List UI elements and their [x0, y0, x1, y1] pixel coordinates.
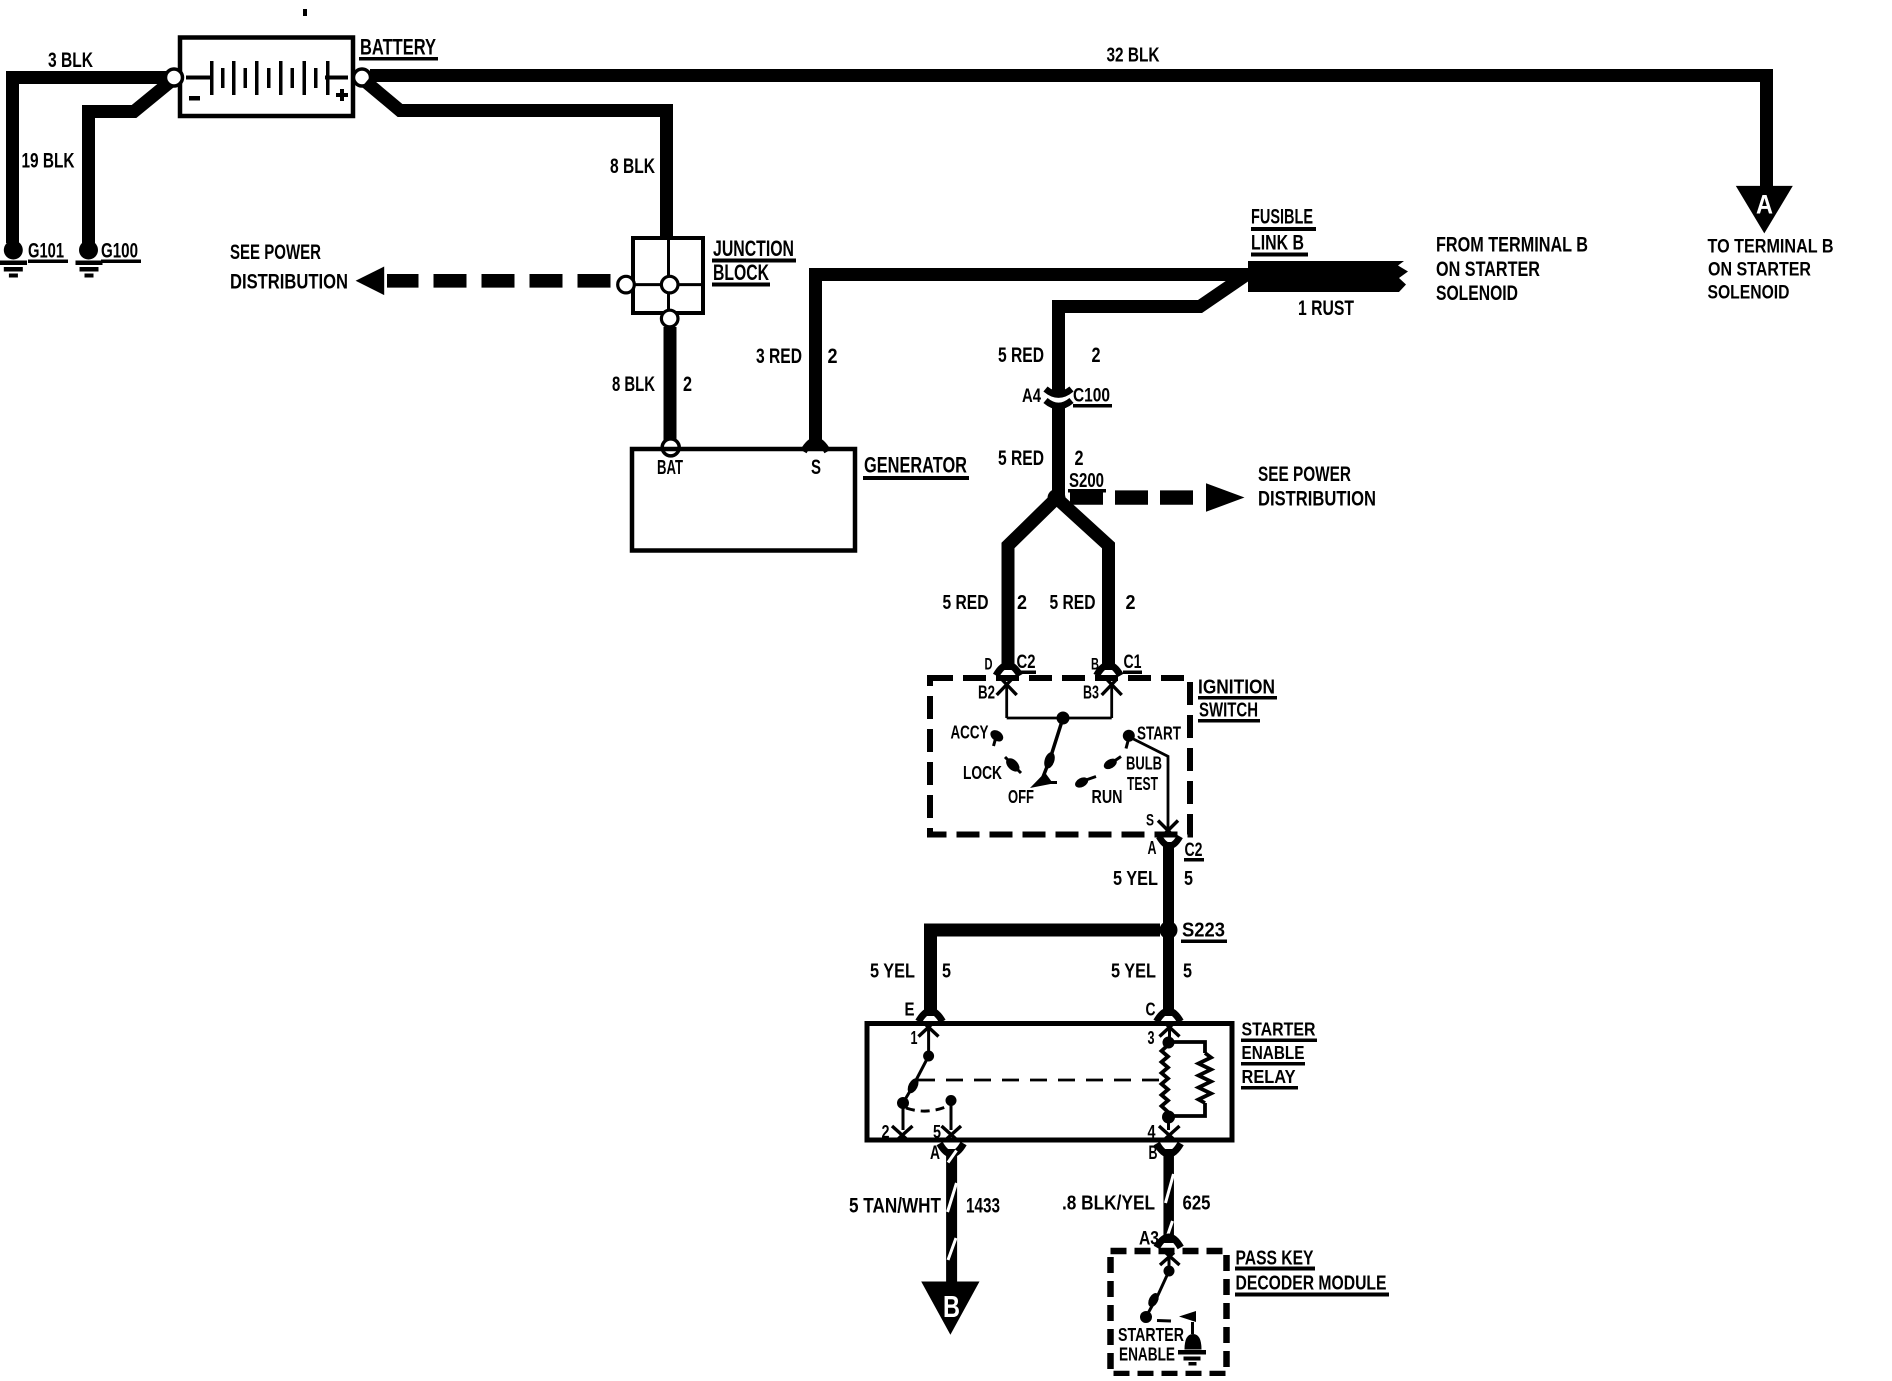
svg-text:OFF: OFF	[1008, 787, 1034, 807]
contact to pin 2	[902, 1103, 905, 1130]
svg-text:B3: B3	[1083, 683, 1099, 703]
label G100	[101, 240, 141, 264]
battery	[180, 38, 353, 117]
pin 3 arrow	[1160, 1023, 1180, 1040]
label STARTER ENABLE (in module)	[1118, 1325, 1184, 1365]
wire 5 YEL 5 ignition switch to S223	[1163, 842, 1174, 1016]
svg-text:3 BLK: 3 BLK	[48, 49, 93, 72]
svg-text:TEST: TEST	[1127, 774, 1158, 794]
svg-text:RELAY: RELAY	[1242, 1067, 1296, 1087]
terminal label C2	[1016, 652, 1036, 674]
svg-text:C: C	[1146, 1000, 1156, 1020]
svg-text:LOCK: LOCK	[963, 763, 1002, 783]
splice S223	[1160, 921, 1178, 939]
svg-text:B: B	[1091, 655, 1099, 674]
svg-text:3: 3	[1148, 1028, 1155, 1048]
svg-text:C2: C2	[1185, 840, 1203, 861]
svg-text:2: 2	[1075, 447, 1084, 470]
starter enable relay box	[867, 1024, 1232, 1141]
svg-text:DISTRIBUTION: DISTRIBUTION	[230, 271, 348, 294]
svg-text:C100: C100	[1073, 386, 1110, 407]
svg-text:S: S	[811, 456, 821, 479]
wire label 3 RED 2	[756, 345, 838, 368]
svg-text:BAT: BAT	[657, 457, 683, 479]
svg-text:SWITCH: SWITCH	[1199, 700, 1258, 722]
wire from START to pin S	[1132, 738, 1168, 828]
svg-text:DECODER MODULE: DECODER MODULE	[1236, 1273, 1387, 1295]
resistor (right zigzag)	[1169, 1042, 1212, 1116]
label PASS KEY DECODER MODULE	[1235, 1248, 1389, 1297]
rotor arm to OFF	[1030, 718, 1063, 788]
wire between B2 and B3	[1007, 717, 1112, 720]
svg-text:5: 5	[942, 961, 951, 983]
svg-text:625: 625	[1183, 1193, 1211, 1215]
label G101	[28, 240, 68, 264]
wire 5 RED feed to fusible link	[1059, 275, 1247, 392]
junction block	[633, 238, 703, 313]
fusible link B bar (1 RUST)	[1248, 261, 1408, 292]
position marker ACCY	[988, 728, 1005, 746]
dashed arrow SEE POWER DISTRIBUTION (left)	[356, 267, 611, 296]
svg-text:5 YEL: 5 YEL	[870, 961, 915, 983]
battery negative terminal circle	[166, 69, 183, 86]
label GENERATOR	[863, 453, 969, 481]
ground in pass key module	[1178, 1322, 1206, 1366]
svg-text:C1: C1	[1124, 652, 1142, 673]
svg-text:8 BLK: 8 BLK	[610, 155, 655, 178]
svg-text:DISTRIBUTION: DISTRIBUTION	[1258, 488, 1376, 511]
starter enable switch in pass key module	[1140, 1266, 1196, 1324]
svg-text:5 RED: 5 RED	[1050, 592, 1096, 614]
svg-text:S200: S200	[1069, 470, 1104, 492]
svg-text:D: D	[985, 655, 993, 674]
position marker RUN	[1073, 775, 1096, 790]
svg-text:5 YEL: 5 YEL	[1113, 868, 1158, 890]
wire label 5 YEL 5 (left)	[870, 961, 951, 983]
terminal label C1	[1123, 652, 1142, 674]
wire 5 RED 2 from S200 to ignition switch B/C1	[1057, 498, 1109, 670]
splice S200	[1048, 489, 1066, 507]
label FUSIBLE LINK B	[1251, 206, 1316, 257]
svg-text:5 RED: 5 RED	[998, 344, 1044, 367]
svg-text:START: START	[1137, 724, 1181, 744]
svg-text:.8 BLK/YEL: .8 BLK/YEL	[1062, 1193, 1155, 1215]
wire 8 BLK 2 junction block to generator BAT	[664, 327, 677, 441]
position marker BULB TEST	[1102, 757, 1121, 772]
svg-text:2: 2	[1092, 344, 1101, 367]
coil to pin 4	[1167, 1117, 1170, 1130]
label SEE POWER DISTRIBUTION (right)	[1258, 463, 1376, 511]
svg-text:5 TAN/WHT: 5 TAN/WHT	[849, 1195, 941, 1218]
terminal chevron A3	[1157, 1237, 1181, 1248]
wire 5 RED 2 from S200 to ignition switch D/C2	[1008, 498, 1057, 670]
terminal chevron A below relay	[940, 1144, 964, 1155]
position marker START	[1123, 730, 1135, 749]
label BULB TEST	[1126, 754, 1162, 795]
label SEE POWER DISTRIBUTION (left)	[230, 241, 348, 294]
svg-text:G100: G100	[101, 240, 138, 263]
connector C100 pin A4	[1046, 389, 1072, 406]
stray mark top center	[303, 9, 307, 16]
wire label .8 BLK/YEL 625	[1062, 1193, 1211, 1215]
wire 5 TAN/WHT 1433 from relay A to connector B	[948, 1149, 957, 1283]
junction block center circle	[661, 276, 678, 293]
label TO TERMINAL B ON STARTER SOLENOID	[1708, 237, 1834, 304]
relay coil node bottom	[1162, 1111, 1175, 1124]
svg-text:B2: B2	[978, 683, 995, 703]
svg-text:LINK B: LINK B	[1251, 232, 1304, 255]
svg-text:C2: C2	[1017, 652, 1036, 673]
svg-text:2: 2	[1017, 592, 1027, 614]
wire 5 RED 2 from C100 to splice S200	[1052, 406, 1065, 495]
pass key pin arrow	[1160, 1253, 1180, 1269]
svg-text:SOLENOID: SOLENOID	[1708, 283, 1790, 304]
svg-text:2: 2	[828, 345, 838, 368]
relay coil node top	[1163, 1037, 1175, 1049]
svg-text:B: B	[1149, 1143, 1158, 1164]
svg-text:5 RED: 5 RED	[998, 447, 1044, 470]
svg-text:2: 2	[882, 1122, 890, 1142]
svg-text:E: E	[905, 1000, 915, 1020]
wire label 5 RED 2 (left branch)	[943, 592, 1028, 614]
svg-text:S: S	[1146, 811, 1154, 830]
svg-text:5: 5	[933, 1122, 941, 1142]
wire label 5 RED 2 (lower)	[998, 447, 1084, 470]
off-page connector B	[921, 1282, 979, 1335]
svg-text:ON STARTER: ON STARTER	[1436, 258, 1540, 281]
svg-text:A: A	[930, 1143, 940, 1164]
pin 1 arrow	[919, 1023, 939, 1053]
relay actuating dashed line	[918, 1079, 1161, 1082]
wire 32 BLK from battery positive to connector A	[370, 76, 1767, 191]
svg-text:SEE POWER: SEE POWER	[230, 241, 321, 264]
label S200	[1068, 470, 1106, 493]
svg-text:1433: 1433	[966, 1195, 1000, 1218]
pin B2 arrow	[997, 680, 1017, 719]
svg-text:SOLENOID: SOLENOID	[1436, 282, 1518, 305]
svg-text:ENABLE: ENABLE	[1119, 1345, 1175, 1365]
svg-text:B: B	[943, 1289, 960, 1324]
svg-text:ENABLE: ENABLE	[1242, 1043, 1305, 1063]
junction block bottom circle	[661, 310, 678, 327]
svg-text:8 BLK: 8 BLK	[612, 373, 655, 396]
ignition switch dashed box	[930, 678, 1190, 835]
pin S arrow	[1158, 821, 1178, 836]
label STARTER ENABLE RELAY	[1241, 1020, 1317, 1090]
svg-text:ON STARTER: ON STARTER	[1708, 260, 1811, 281]
svg-text:SEE POWER: SEE POWER	[1258, 463, 1351, 486]
terminal chevron B/C1	[1097, 665, 1121, 676]
svg-text:STARTER: STARTER	[1242, 1020, 1316, 1040]
label C100	[1073, 386, 1112, 408]
label FROM TERMINAL B ON STARTER SOLENOID	[1436, 234, 1588, 306]
svg-text:1 RUST: 1 RUST	[1298, 297, 1354, 320]
wire label 5 TAN/WHT 1433	[849, 1195, 1000, 1218]
relay switch contact (pin 1 side)	[897, 1051, 934, 1110]
svg-text:G101: G101	[28, 240, 64, 263]
ground G100	[76, 241, 103, 278]
svg-text:5: 5	[1183, 961, 1192, 983]
wire 3 RED 2 from generator S to fusible link	[816, 275, 1251, 448]
fusible link left tip	[1233, 268, 1249, 284]
terminal chevron B below relay	[1157, 1144, 1181, 1155]
svg-text:IGNITION: IGNITION	[1198, 677, 1275, 699]
label JUNCTION BLOCK	[712, 236, 796, 287]
svg-text:32 BLK: 32 BLK	[1107, 45, 1160, 67]
svg-text:BATTERY: BATTERY	[360, 35, 436, 60]
svg-text:PASS KEY: PASS KEY	[1236, 1248, 1315, 1270]
terminal chevron at generator S	[804, 441, 828, 452]
svg-text:FROM TERMINAL B: FROM TERMINAL B	[1436, 234, 1588, 257]
generator BAT terminal circle	[662, 439, 679, 456]
svg-text:4: 4	[1148, 1122, 1156, 1142]
dashed arrow SEE POWER DISTRIBUTION (right)	[1070, 483, 1245, 512]
label BATTERY	[359, 35, 438, 61]
wire label 5 YEL 5	[1113, 868, 1193, 890]
wire 8 BLK from battery positive to junction block	[366, 82, 667, 240]
wire label 8 BLK 2	[612, 373, 692, 396]
wire 19 BLK from battery negative to G100	[89, 82, 171, 243]
svg-text:3 RED: 3 RED	[756, 345, 802, 368]
relay coil (left zigzag)	[1162, 1045, 1169, 1112]
svg-text:GENERATOR: GENERATOR	[864, 453, 967, 478]
svg-text:1: 1	[911, 1028, 918, 1048]
pin B3 arrow	[1102, 680, 1122, 719]
svg-text:A4: A4	[1022, 386, 1041, 407]
relay contact (pin 5 side)	[946, 1095, 957, 1130]
battery positive terminal circle	[354, 69, 371, 86]
terminal label C2	[1184, 840, 1204, 862]
svg-text:A: A	[1148, 838, 1157, 858]
svg-text:A3: A3	[1139, 1229, 1159, 1250]
svg-text:2: 2	[683, 373, 692, 396]
terminal chevron D/C2	[996, 665, 1020, 676]
wire .8 BLK/YEL 625 from relay B to pass key module A3	[1166, 1149, 1174, 1243]
node rotor pivot	[1057, 712, 1070, 725]
position marker LOCK	[1004, 756, 1022, 774]
svg-text:2: 2	[1126, 592, 1136, 614]
svg-text:S223: S223	[1182, 920, 1225, 942]
dashed link between contacts	[906, 1106, 948, 1111]
wire label 5 RED 2 (upper)	[998, 344, 1101, 367]
svg-text:STARTER: STARTER	[1118, 1325, 1184, 1345]
generator box	[632, 449, 855, 551]
svg-text:5 RED: 5 RED	[943, 592, 989, 614]
svg-text:JUNCTION: JUNCTION	[713, 236, 794, 261]
svg-text:5 YEL: 5 YEL	[1111, 961, 1156, 983]
svg-text:ACCY: ACCY	[951, 723, 989, 743]
svg-text:BULB: BULB	[1126, 754, 1162, 774]
pass key decoder module dashed box	[1111, 1251, 1227, 1374]
label IGNITION SWITCH	[1198, 677, 1277, 723]
pin 5 arrow	[942, 1126, 962, 1140]
svg-text:FUSIBLE: FUSIBLE	[1251, 206, 1313, 229]
terminal chevron C	[1157, 1011, 1181, 1022]
wire 3 BLK from battery negative to G101	[13, 78, 167, 244]
svg-text:TO TERMINAL B: TO TERMINAL B	[1708, 237, 1834, 258]
off-page connector A (to terminal B on starter solenoid)	[1736, 186, 1793, 234]
svg-text:RUN: RUN	[1092, 787, 1123, 807]
junction block left circle	[618, 276, 635, 293]
wire label 5 RED 2 (right branch)	[1050, 592, 1136, 614]
terminal chevron E	[919, 1011, 943, 1022]
svg-text:BLOCK: BLOCK	[713, 260, 769, 285]
pin 2 arrow	[892, 1126, 913, 1140]
svg-text:19 BLK: 19 BLK	[22, 150, 75, 173]
ground G101	[0, 241, 27, 278]
wire 5 YEL 5 from S223 to relay E	[931, 930, 1161, 1016]
terminal chevron A/C2 below ignition switch	[1159, 837, 1180, 846]
wire label 5 YEL 5 (right)	[1111, 961, 1192, 983]
svg-text:A: A	[1756, 190, 1773, 220]
svg-text:5: 5	[1184, 868, 1193, 890]
label S223	[1181, 920, 1227, 944]
pin 4 arrow	[1159, 1126, 1180, 1140]
